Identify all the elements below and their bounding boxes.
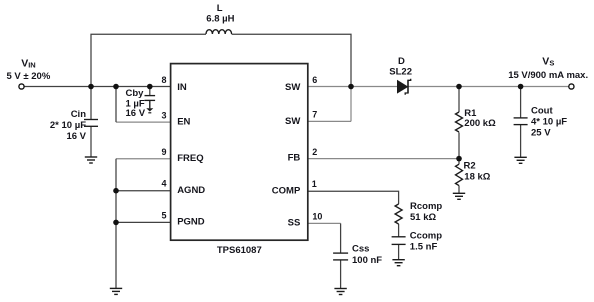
svg-text:Ccomp: Ccomp [410, 231, 442, 242]
svg-text:3: 3 [161, 110, 166, 120]
svg-text:2* 10 µF: 2* 10 µF [50, 120, 86, 131]
svg-text:Rcomp: Rcomp [410, 201, 442, 212]
svg-text:8: 8 [161, 75, 166, 85]
svg-text:10: 10 [312, 211, 322, 221]
svg-text:Css: Css [352, 243, 369, 254]
svg-text:FREQ: FREQ [177, 153, 203, 164]
svg-text:Cby: Cby [126, 88, 145, 99]
svg-text:SW: SW [285, 116, 300, 127]
svg-text:25 V: 25 V [531, 127, 551, 138]
svg-text:SW: SW [285, 82, 300, 93]
svg-text:15 V/900 mA max.: 15 V/900 mA max. [508, 70, 588, 81]
svg-text:5: 5 [161, 211, 166, 221]
svg-text:1.5 nF: 1.5 nF [410, 241, 438, 252]
svg-text:6.8 µH: 6.8 µH [206, 14, 234, 25]
svg-text:Cin: Cin [71, 109, 87, 120]
svg-text:6: 6 [312, 75, 317, 85]
svg-text:Cout: Cout [531, 105, 553, 116]
svg-text:9: 9 [161, 147, 166, 157]
svg-text:16 V: 16 V [66, 131, 86, 142]
svg-text:7: 7 [312, 109, 317, 119]
svg-text:1: 1 [312, 179, 317, 189]
svg-text:D: D [398, 56, 405, 67]
svg-text:L: L [217, 3, 223, 14]
svg-text:SL22: SL22 [389, 67, 412, 78]
svg-text:PGND: PGND [177, 216, 205, 227]
svg-text:4: 4 [161, 178, 166, 188]
svg-text:TPS61087: TPS61087 [217, 245, 262, 256]
svg-text:200 kΩ: 200 kΩ [464, 118, 496, 129]
svg-text:2: 2 [312, 147, 317, 157]
svg-text:COMP: COMP [272, 185, 301, 196]
svg-text:FB: FB [288, 153, 301, 164]
svg-text:R2: R2 [464, 160, 476, 171]
svg-text:AGND: AGND [177, 185, 205, 196]
svg-text:18 kΩ: 18 kΩ [464, 171, 490, 182]
svg-text:51 kΩ: 51 kΩ [410, 212, 436, 223]
svg-text:4* 10 µF: 4* 10 µF [531, 116, 567, 127]
svg-text:5 V ± 20%: 5 V ± 20% [7, 71, 51, 82]
svg-text:16 V: 16 V [126, 108, 146, 119]
svg-text:100 nF: 100 nF [352, 255, 382, 266]
svg-text:IN: IN [177, 82, 187, 93]
svg-text:EN: EN [177, 117, 190, 128]
svg-text:SS: SS [288, 218, 301, 229]
